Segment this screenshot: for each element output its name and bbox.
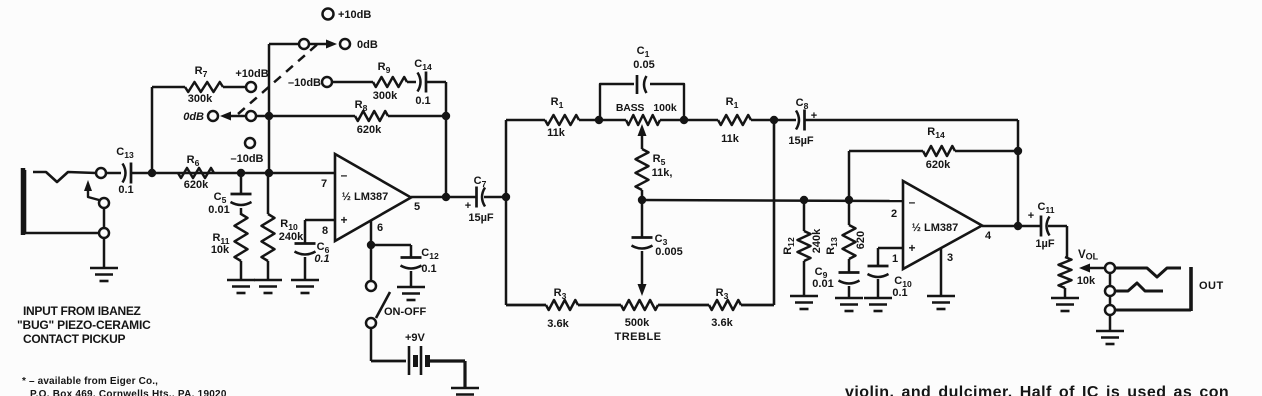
label C1 — [633, 45, 654, 71]
svg-text:+10dB: +10dB — [338, 9, 371, 21]
svg-text:C3: C3 — [655, 233, 668, 247]
svg-text:OUT: OUT — [1199, 280, 1224, 292]
wire main line — [132, 172, 335, 175]
capacitor C6 — [295, 244, 316, 255]
label +10dB left — [235, 68, 268, 80]
resistor R5 — [636, 149, 649, 190]
switch pole B wiper — [299, 39, 309, 49]
wire R13 branch — [848, 200, 851, 225]
label BASS 100k — [616, 102, 677, 114]
wire bass left stub — [599, 119, 626, 122]
wire node A to R1a — [506, 119, 545, 122]
label R11 — [211, 232, 230, 256]
label R5 — [652, 153, 673, 179]
label C13 — [116, 146, 134, 196]
output jack tip contact — [1115, 268, 1181, 277]
wire pin5 to C7 — [446, 196, 477, 199]
caption violin and dulcimer — [845, 384, 1229, 396]
switch on-off blade — [376, 292, 390, 318]
label 500k TREBLE — [615, 317, 662, 343]
wire R10 to ground — [267, 261, 270, 280]
svg-text:–: – — [341, 168, 348, 182]
wire C7 to node A — [484, 196, 506, 199]
wire switch to battery — [371, 328, 406, 361]
wire treble to R3b — [658, 304, 709, 307]
output jack sleeve terminal — [1105, 305, 1115, 315]
wire battery to ground — [429, 361, 465, 388]
potentiometer TREBLE 500k — [621, 300, 658, 310]
output jack tip terminal — [1105, 263, 1115, 273]
terminal 0dB right — [340, 39, 350, 49]
svg-text:3.6k: 3.6k — [711, 317, 733, 329]
resistor R1 right — [718, 115, 751, 125]
wire pin6 to switch — [370, 249, 373, 281]
node B tone output — [770, 116, 778, 124]
svg-text:11k: 11k — [721, 133, 740, 145]
pin 2 label — [891, 208, 897, 220]
wire R11 to ground — [240, 261, 243, 280]
terminal +10dB left — [246, 82, 256, 92]
svg-text:500k: 500k — [625, 317, 650, 329]
capacitor C14 — [418, 72, 427, 93]
pin 5 label — [414, 201, 420, 213]
wire R1a to bass — [579, 119, 599, 122]
terminal +10dB top stub — [323, 9, 334, 20]
node main-R7 junction — [148, 169, 156, 177]
wire gain bus — [269, 44, 299, 173]
wire node A to R3a — [506, 304, 546, 307]
label R7 — [188, 65, 213, 105]
svg-text:620k: 620k — [357, 124, 382, 136]
ground input jack — [90, 268, 118, 281]
ground R10 — [254, 280, 282, 293]
node op1 output junction — [442, 193, 450, 201]
label C6 — [314, 241, 329, 265]
svg-text:0.01: 0.01 — [208, 204, 229, 216]
label -10dB left — [230, 153, 263, 165]
ground battery — [451, 388, 479, 396]
ground R11 — [227, 280, 255, 293]
svg-text:C14: C14 — [414, 58, 432, 72]
label C5 — [208, 191, 229, 216]
label C8 — [788, 97, 817, 147]
pin 3 label — [947, 252, 953, 264]
capacitor C5 — [231, 194, 252, 205]
label R14 — [926, 126, 951, 171]
capacitor C7 — [477, 187, 486, 208]
svg-text:0.01: 0.01 — [812, 278, 833, 290]
wire C9 to ground — [848, 286, 851, 298]
svg-text:BASS: BASS — [616, 102, 645, 114]
svg-text:8: 8 — [322, 225, 328, 237]
label C9 — [812, 266, 833, 290]
node R14-C8 junction — [1014, 147, 1022, 155]
capacitor C1 bracket — [600, 84, 684, 120]
switch gang dashed link — [238, 42, 320, 114]
resistor R11 — [235, 214, 248, 261]
label R1 right — [721, 96, 740, 145]
node bus-R8 junction — [265, 112, 273, 120]
label R3 left — [547, 287, 569, 330]
svg-text:C7: C7 — [474, 175, 487, 189]
wire sleeve to OUT — [1115, 267, 1191, 311]
svg-text:+: + — [1028, 210, 1034, 222]
svg-text:C8: C8 — [796, 97, 809, 111]
svg-text:15µF: 15µF — [788, 135, 814, 147]
wire pin8 to C6 — [305, 220, 335, 244]
wire jack to ground — [103, 238, 106, 268]
svg-text:15µF: 15µF — [468, 212, 494, 224]
svg-text:R12: R12 — [782, 237, 796, 255]
switch pole A wiper arrow — [220, 112, 246, 121]
svg-text:C5: C5 — [214, 191, 227, 205]
node R5-C3 junction — [638, 196, 646, 204]
svg-text:C11: C11 — [1037, 201, 1054, 215]
svg-text:R3: R3 — [716, 287, 729, 301]
svg-text:C1: C1 — [637, 45, 650, 59]
label +9V — [405, 332, 426, 344]
svg-text:100k: 100k — [653, 102, 677, 114]
op-amp U1 half LM387 — [335, 154, 411, 241]
wire R13 to C9 — [848, 259, 851, 273]
label C10 — [892, 275, 912, 299]
svg-text:INPUT FROM IBANEZ: INPUT FROM IBANEZ — [23, 304, 141, 318]
svg-text:2: 2 — [891, 208, 897, 220]
wire C6 to ground — [304, 257, 307, 280]
ground C12 — [397, 287, 425, 300]
output jack ring contact — [1116, 283, 1163, 291]
svg-text:0.1: 0.1 — [314, 253, 329, 265]
input jack tip terminal — [96, 168, 106, 178]
wire C8 to op2 output — [804, 120, 1018, 226]
svg-text:R13: R13 — [825, 237, 839, 255]
wire VOL to ground — [1064, 288, 1067, 298]
node op2 output junction — [1014, 222, 1022, 230]
bass wiper arrow — [638, 124, 647, 136]
capacitor C10 — [868, 266, 889, 277]
pin 1 label — [892, 253, 898, 265]
svg-text:R14: R14 — [927, 126, 945, 140]
resistor R10 — [262, 214, 275, 261]
capacitor C13 — [123, 163, 132, 184]
wire tip to C13 — [106, 172, 121, 175]
svg-text:R10: R10 — [280, 218, 298, 232]
svg-text:+: + — [340, 213, 347, 227]
op-amp U2 half LM387 — [903, 181, 982, 269]
wire C11 to VOL — [1048, 226, 1067, 257]
node C5 junction — [237, 169, 245, 177]
svg-text:+: + — [908, 241, 915, 255]
wire C14 to feedback node — [427, 82, 446, 197]
svg-text:–10dB: –10dB — [288, 77, 321, 89]
input jack terminal 2 — [99, 198, 109, 208]
svg-text:5: 5 — [414, 201, 420, 213]
wire R10 branch — [267, 173, 270, 214]
wire pin3 to ground — [940, 248, 943, 296]
svg-text:300k: 300k — [188, 93, 213, 105]
svg-text:0.05: 0.05 — [633, 59, 654, 71]
wire bass wiper to R5 — [641, 136, 644, 149]
resistor R7 — [185, 82, 223, 92]
label +10dB top — [338, 9, 371, 21]
resistor R14 — [923, 146, 955, 156]
wire R1b to node B — [751, 119, 774, 122]
wire R12 to ground — [803, 261, 806, 296]
svg-text:0.005: 0.005 — [655, 246, 683, 258]
svg-text:R6: R6 — [187, 154, 200, 168]
wire node A riser — [505, 120, 508, 197]
label C7 — [465, 175, 494, 224]
label C12 — [421, 247, 439, 275]
svg-text:1µF: 1µF — [1035, 238, 1054, 250]
label 0dB left — [183, 111, 204, 123]
label OUT — [1199, 280, 1224, 292]
ground pin3 — [927, 296, 955, 309]
input jack tip contact — [33, 172, 96, 182]
svg-text:R3: R3 — [554, 287, 567, 301]
svg-text:620k: 620k — [926, 159, 951, 171]
svg-text:3: 3 — [947, 252, 953, 264]
wire jack sleeve — [25, 170, 99, 233]
wire R7 to +10dB — [223, 86, 246, 89]
svg-text:620k: 620k — [184, 179, 209, 191]
label ON-OFF — [384, 306, 426, 318]
svg-text:R1: R1 — [551, 96, 564, 110]
switch on-off terminal 2 — [366, 318, 376, 328]
label R10 — [279, 218, 304, 243]
wire node B to C8 — [774, 119, 796, 122]
label INPUT FROM IBANEZ — [17, 304, 151, 346]
vol wiper arrow — [1079, 264, 1105, 273]
svg-text:P.O. Box 469, Cornwells Hts.,: P.O. Box 469, Cornwells Hts., PA, 19020 — [30, 389, 227, 396]
wire pin1 to C10 — [878, 248, 903, 266]
svg-text:0.1: 0.1 — [415, 95, 430, 107]
wire jack link 1 — [1109, 273, 1112, 286]
pin 7 label — [321, 178, 327, 190]
capacitor C3 — [632, 238, 653, 249]
node bass right junction — [680, 116, 688, 124]
svg-text:240k: 240k — [279, 231, 304, 243]
treble wiper arrow — [638, 284, 647, 296]
label R9 — [373, 61, 398, 102]
svg-text:"BUG" PIEZO-CERAMIC: "BUG" PIEZO-CERAMIC — [17, 318, 151, 332]
wire jack link 2 — [1109, 296, 1112, 305]
label R12 — [782, 228, 823, 255]
svg-text:0dB: 0dB — [357, 39, 378, 51]
potentiometer VOL 10k — [1059, 257, 1072, 288]
potentiometer BASS 100k — [626, 115, 660, 125]
wire node A fall — [505, 197, 508, 305]
pin 6 label — [377, 222, 383, 234]
ground output jack — [1096, 331, 1124, 344]
wire sleeve to ground — [1109, 315, 1112, 331]
wire R12 branch — [803, 200, 806, 231]
switch on-off terminal 1 — [366, 281, 376, 291]
svg-text:–10dB: –10dB — [230, 153, 263, 165]
svg-text:C13: C13 — [116, 146, 134, 160]
resistor R12 — [798, 231, 811, 261]
label R3 right — [711, 287, 733, 329]
footnote available from Eiger Co — [22, 376, 227, 396]
switch pole A wiper — [246, 111, 256, 121]
capacitor C8 — [796, 110, 805, 131]
svg-text:+: + — [465, 200, 471, 212]
svg-text:violin, and dulcimer. Half of: violin, and dulcimer. Half of IC is used… — [845, 384, 1229, 396]
wire pin6 drop — [370, 221, 373, 245]
node R12 junction — [800, 196, 808, 204]
wire wiper B arrow — [309, 40, 337, 49]
capacitor C11 — [1041, 216, 1050, 237]
resistor R6 — [178, 168, 214, 178]
wire C10 to ground — [877, 279, 880, 298]
svg-text:½ LM387: ½ LM387 — [342, 191, 388, 203]
wire R8 row — [269, 115, 446, 118]
wire jack terminals link — [103, 208, 106, 228]
ground C9 — [835, 298, 863, 311]
wire wiper line — [642, 200, 903, 201]
battery B1 +9V — [409, 346, 428, 375]
svg-text:R8: R8 — [355, 99, 368, 113]
node bass left junction — [595, 116, 603, 124]
wire R5 to mid node — [641, 190, 644, 200]
wire bass right stub — [660, 119, 684, 122]
svg-text:R1: R1 — [726, 96, 739, 110]
resistor R1 left — [545, 115, 579, 125]
label 0dB right — [357, 39, 378, 51]
svg-text:1: 1 — [892, 253, 898, 265]
wire pin6 to C12 — [371, 245, 411, 258]
resistor R13 — [843, 225, 856, 259]
wire -10dB to R9 — [332, 81, 373, 84]
input jack terminal 3 — [99, 228, 109, 238]
wire op2 output — [982, 225, 1042, 228]
resistor R8 — [355, 111, 388, 121]
pin 8 label — [322, 225, 328, 237]
resistor R3 right — [709, 300, 741, 310]
resistor R3 left — [546, 300, 578, 310]
wire output pin5 — [411, 196, 446, 199]
svg-text:C12: C12 — [421, 247, 439, 261]
capacitor C1 — [637, 75, 647, 94]
label R13 — [825, 231, 867, 255]
ground C6 — [291, 280, 319, 293]
wire C5 branch — [240, 173, 243, 194]
svg-text:620: 620 — [855, 231, 867, 249]
svg-text:0dB: 0dB — [183, 111, 204, 123]
wire wiper A to bus — [256, 115, 269, 118]
label R8 — [355, 99, 382, 136]
node pin6 junction — [367, 241, 375, 249]
svg-text:R7: R7 — [195, 65, 208, 79]
wire C3 branch — [641, 200, 644, 238]
output jack ring terminal — [1105, 286, 1115, 296]
label C11 — [1028, 201, 1055, 250]
pin 4 label — [985, 230, 992, 242]
svg-text:+10dB: +10dB — [235, 68, 268, 80]
svg-text:10k: 10k — [1077, 275, 1096, 287]
label R1 left — [547, 96, 566, 139]
label R6 — [184, 154, 209, 191]
wire bass to R1b — [684, 119, 718, 122]
svg-text:+9V: +9V — [405, 332, 426, 344]
terminal -10dB right — [322, 77, 332, 87]
svg-text:0.1: 0.1 — [118, 184, 133, 196]
label C3 — [655, 233, 683, 258]
node R8-C14 junction — [442, 112, 450, 120]
wire C5 to R11 — [240, 208, 243, 215]
wire R3a to treble — [578, 304, 621, 307]
svg-text:11k: 11k — [547, 127, 566, 139]
wire R7 left leg — [152, 87, 185, 172]
ground C10 — [864, 298, 892, 311]
label C14 — [414, 58, 432, 107]
node R13 junction — [845, 196, 853, 204]
terminal -10dB left stub — [245, 138, 255, 148]
svg-text:R9: R9 — [378, 61, 391, 75]
svg-text:240k: 240k — [811, 228, 823, 253]
terminal 0dB left — [208, 111, 218, 121]
wire R14 right leg — [955, 150, 1018, 153]
svg-text:0.1: 0.1 — [892, 287, 907, 299]
svg-text:VOL: VOL — [1078, 249, 1099, 262]
wire C3 to treble arrow — [641, 251, 644, 284]
node A tone input — [502, 193, 510, 201]
label -10dB right — [288, 77, 321, 89]
wire R14 left leg — [849, 151, 923, 200]
wire C12 to ground — [410, 271, 413, 287]
svg-text:11k,: 11k, — [652, 167, 673, 179]
ground R12 — [790, 296, 818, 309]
svg-text:10k: 10k — [211, 244, 230, 256]
capacitor C12 — [401, 258, 422, 269]
svg-text:7: 7 — [321, 178, 327, 190]
input jack plug body — [21, 168, 26, 235]
svg-text:ON-OFF: ON-OFF — [384, 306, 426, 318]
svg-text:3.6k: 3.6k — [547, 318, 569, 330]
svg-text:4: 4 — [985, 230, 992, 242]
svg-text:300k: 300k — [373, 90, 398, 102]
capacitor C9 — [839, 273, 860, 284]
svg-text:0.1: 0.1 — [421, 263, 436, 275]
svg-text:6: 6 — [377, 222, 383, 234]
wire R9 to C14 — [407, 81, 416, 84]
svg-text:* – available from Eiger Co.,: * – available from Eiger Co., — [22, 376, 158, 387]
svg-text:–: – — [909, 195, 916, 209]
svg-text:CONTACT PICKUP: CONTACT PICKUP — [23, 332, 126, 346]
label VOL 10k — [1077, 249, 1099, 287]
wire R3b riser — [741, 120, 774, 305]
svg-text:½ LM387: ½ LM387 — [912, 222, 958, 234]
ground VOL — [1051, 298, 1079, 311]
svg-text:R5: R5 — [653, 153, 666, 167]
input jack wiper arrow — [84, 180, 99, 200]
resistor R9 — [373, 77, 407, 87]
node bus junction — [265, 169, 273, 177]
svg-text:TREBLE: TREBLE — [615, 331, 662, 343]
